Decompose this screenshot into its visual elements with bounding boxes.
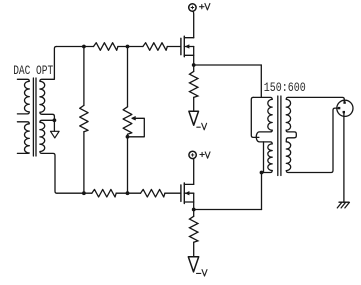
transformer T2 secondary center tap stub: [286, 130, 296, 142]
label -V (bottom): [197, 270, 208, 276]
power +V supply circle (bottom): [189, 151, 196, 158]
transformer T1 secondary winding lower: [40, 120, 57, 193]
wire top rail mid segment: [118, 46, 143, 48]
wire junction to R7: [193, 210, 195, 217]
transistor Q2 drain lead: [184, 183, 193, 185]
transformer T1 primary winding upper: [17, 79, 29, 114]
wire junction to R6: [193, 65, 195, 71]
transformer T2 primary winding A: [268, 99, 272, 130]
resistor R7 vertical: [190, 216, 198, 242]
potentiometer P1 wiper arrowhead: [132, 117, 135, 120]
resistor R1: [94, 43, 118, 51]
transformer T2 secondary winding D: [286, 142, 290, 171]
node P1 wiper tie: [126, 135, 130, 139]
transistor Q2 channel bar: [183, 183, 185, 204]
transistor Q2 body lead: [184, 192, 193, 194]
node Q1 output junction: [192, 63, 196, 67]
svg-text:150:600: 150:600: [264, 80, 306, 95]
transistor Q1 source lead: [184, 54, 193, 56]
transistor Q1 body arrow: [186, 45, 189, 48]
node top rail / R3: [82, 45, 86, 49]
wire Q2 output to T2 primary bottom: [194, 209, 262, 211]
wire bottom rail left segment: [57, 192, 92, 194]
svg-text:DAC OPT: DAC OPT: [13, 63, 53, 78]
connector J1 pin left: [338, 107, 340, 109]
transformer T2 core: [278, 96, 281, 176]
node T2 primary bottom junction: [260, 171, 264, 175]
node T1 center tap: [53, 118, 57, 122]
node bottom rail / P1: [126, 191, 130, 195]
wire top rail left segment: [56, 46, 93, 48]
transformer T1 secondary winding upper: [40, 78, 55, 121]
transistor Q1 drain lead: [184, 37, 193, 39]
wire T1 secondary top to rail: [54, 47, 56, 78]
connector J1 pin top: [343, 101, 345, 103]
label -V (top): [197, 123, 207, 130]
transistor Q1 gate bar: [180, 38, 182, 54]
transformer T2 secondary winding C: [286, 97, 290, 130]
wire Q2 body/source down: [193, 193, 195, 209]
resistor R4: [92, 189, 116, 197]
transformer T1 primary winding lower: [17, 122, 29, 154]
wire R7 to -V arrow: [193, 242, 195, 256]
wire bottom rail to Q2 gate: [165, 192, 181, 194]
wire J1 bottom pin to ground: [343, 113, 345, 202]
resistor R2: [143, 43, 167, 51]
transformer T2 secondary winding D bottom lead: [286, 108, 338, 172]
wire T1 center tap down: [53, 120, 55, 131]
transformer T2 primary top lead: [253, 97, 272, 99]
power +V supply circle (top): [189, 4, 196, 11]
transformer T2 secondary winding C top lead (to connector): [288, 97, 344, 101]
wire up to T2 primary bottom lead: [261, 173, 263, 210]
resistor R3 vertical: [80, 105, 88, 131]
potentiometer P1 element: [123, 107, 132, 135]
transformer T2 primary winding B bottom lead: [262, 171, 273, 173]
wire from top rail down at x=83.9: [83, 47, 85, 106]
resistor R6 vertical: [190, 71, 198, 97]
node bottom rail / R3: [82, 191, 86, 195]
ground arrow at T1 center tap: [51, 131, 60, 138]
wire R3 to bottom rail: [83, 132, 85, 193]
connector J1 circle: [337, 100, 353, 116]
label +V (bottom): [200, 152, 210, 158]
transformer T1 core: [33, 78, 36, 156]
transformer T2 primary left bar: [251, 97, 259, 137]
resistor R5: [141, 189, 165, 197]
power -V arrow (top): [189, 111, 199, 125]
wire Q1 output to T2 primary top: [194, 65, 262, 97]
wire R6 to -V arrow: [193, 97, 195, 110]
transistor Q2 gate bar: [180, 185, 182, 201]
wire P1 to bottom rail: [127, 134, 129, 193]
wire from top rail down at x=127.5: [127, 47, 129, 107]
wire Q1 body/source down: [193, 47, 195, 66]
transistor Q1 channel bar: [183, 36, 185, 57]
wire Q2 drain to +V: [192, 159, 195, 185]
power -V arrow (bottom): [188, 257, 198, 272]
wire bottom rail mid segment: [116, 192, 140, 194]
transformer T2 primary inner bar: [263, 142, 265, 173]
transistor Q2 source lead: [184, 201, 193, 203]
node top rail / P1: [126, 45, 130, 49]
wire top rail to Q1 gate: [167, 46, 181, 48]
transistor Q1 body lead: [184, 46, 193, 48]
potentiometer P1 wiper: [128, 118, 145, 137]
node Q2 output junction: [192, 208, 196, 212]
transformer T2 primary winding B: [268, 144, 272, 171]
transistor Q2 body arrow: [186, 192, 189, 195]
connector J1 pin bottom: [343, 111, 345, 113]
wire Q1 drain to +V: [193, 11, 194, 38]
ground symbol: [337, 202, 349, 208]
label +V (top): [200, 4, 210, 10]
transformer T2 primary winding A bottom lead + crossover: [256, 130, 272, 144]
